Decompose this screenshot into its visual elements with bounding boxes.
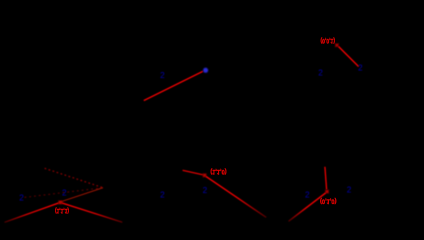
svg-text:(0,0,1): (0,0,1): [321, 37, 336, 44]
svg-text:2: 2: [347, 186, 352, 195]
wire edge L7: [5, 203, 59, 222]
wire edge L2: [339, 47, 359, 67]
wire edge L4: [289, 193, 326, 222]
svg-text:2: 2: [62, 189, 67, 198]
svg-text:(0,1,0): (0,1,0): [320, 197, 337, 204]
wire edge L6: [183, 170, 203, 175]
svg-text:2: 2: [19, 194, 24, 203]
svg-text:2: 2: [318, 69, 323, 78]
hidden dashed edge D4: [25, 188, 104, 198]
vertex knot blob K0: [59, 201, 62, 204]
vertex knot blob K3: [336, 44, 338, 46]
svg-text:2: 2: [160, 191, 165, 200]
svg-text:2: 2: [358, 64, 363, 73]
vertex marker K3: [335, 44, 338, 47]
svg-text:(1,1,0): (1,1,0): [210, 168, 226, 175]
svg-text:2: 2: [160, 71, 165, 80]
wire edge L8: [62, 203, 123, 222]
vertex knot blob K2: [326, 190, 329, 193]
wire edge L5: [206, 176, 266, 217]
wire edge L1: [144, 71, 203, 100]
hidden dashed edge D1: [45, 168, 103, 187]
hidden edge D2: [61, 188, 104, 202]
vertex knot blob K1: [203, 174, 206, 177]
vertex marker K2: [325, 190, 328, 193]
vertex marker K0: [59, 201, 62, 204]
svg-text:(1,1,1): (1,1,1): [55, 207, 69, 214]
svg-text:2: 2: [203, 186, 208, 195]
svg-text:2: 2: [305, 191, 310, 200]
blue vertex dot V_b: [203, 68, 208, 73]
vertex marker K1: [203, 174, 206, 177]
wire edge L3 vertical: [325, 167, 327, 190]
